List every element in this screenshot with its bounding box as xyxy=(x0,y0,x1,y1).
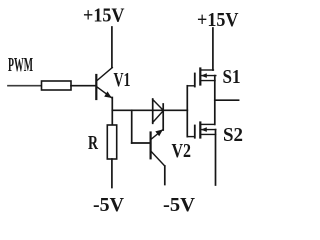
wire S1 source to S2 drain xyxy=(214,76,216,125)
wire main node horizontal xyxy=(112,109,187,111)
wire S2 source down xyxy=(215,130,217,185)
svg-text:R: R xyxy=(88,132,98,154)
svg-text:-5V: -5V xyxy=(163,194,195,216)
svg-text:+15V: +15V xyxy=(197,9,239,31)
wire +15V right to S1 drain xyxy=(212,28,214,70)
wire PWM input xyxy=(8,85,41,87)
wire V2 base horizontal xyxy=(132,142,150,144)
resistor R1 (PWM series) xyxy=(42,81,72,90)
wire output node stub xyxy=(215,99,239,101)
wire V2 collector to -5V xyxy=(164,166,166,185)
wire node to V2 base: vertical branch xyxy=(131,110,133,143)
transistor V2 xyxy=(151,129,165,166)
wire V1 emitter down to node xyxy=(111,98,113,126)
mosfet S1 xyxy=(187,69,216,87)
svg-text:S2: S2 xyxy=(223,124,243,146)
wire +15V left to V1 collector xyxy=(111,27,113,68)
svg-text:S1: S1 xyxy=(223,66,241,88)
svg-text:V2: V2 xyxy=(172,140,192,162)
svg-text:PWM: PWM xyxy=(8,54,33,76)
resistor R xyxy=(107,125,116,159)
wire R to -5V xyxy=(111,159,113,188)
transistor V1 xyxy=(96,68,112,100)
diode VD xyxy=(153,99,164,130)
svg-text:V1: V1 xyxy=(114,69,131,91)
svg-text:+15V: +15V xyxy=(83,5,125,27)
wire gate column xyxy=(186,86,188,137)
mosfet S2 xyxy=(187,123,216,138)
svg-text:-5V: -5V xyxy=(93,194,124,216)
wire resistor to V1 base xyxy=(71,85,96,87)
